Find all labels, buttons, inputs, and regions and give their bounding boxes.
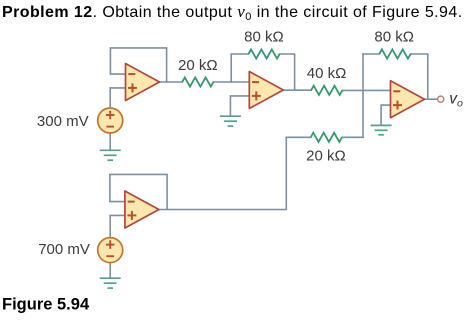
- svg-text:80 kΩ: 80 kΩ: [244, 29, 284, 46]
- svg-text:80 kΩ: 80 kΩ: [374, 29, 414, 46]
- svg-text:300 mV: 300 mV: [37, 113, 89, 130]
- svg-text:20 kΩ: 20 kΩ: [306, 148, 346, 165]
- svg-text:700 mV: 700 mV: [38, 241, 90, 258]
- svg-text:Figure 5.94: Figure 5.94: [2, 296, 90, 314]
- svg-text:20 kΩ: 20 kΩ: [178, 57, 218, 74]
- svg-text:Problem 12. Obtain the output: Problem 12. Obtain the output v0 in the …: [2, 2, 463, 23]
- svg-text:40 kΩ: 40 kΩ: [307, 65, 347, 82]
